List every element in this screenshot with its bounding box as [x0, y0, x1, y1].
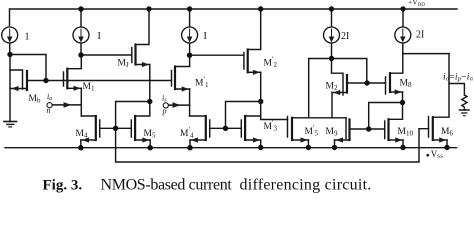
current source 2I5: [402, 9, 404, 27]
svg-text:io=ip−in: io=ip−in: [443, 73, 473, 83]
wire gate line A (Mb drain to M'1 gate): [27, 80, 172, 82]
terminal in: [47, 103, 52, 108]
transistor M'1: [171, 71, 173, 87]
svg-text:Mb: Mb: [29, 94, 41, 105]
transistor M8: [385, 77, 387, 94]
svg-text:M9: M9: [326, 127, 338, 138]
wire -VSS bottom rail: [5, 147, 457, 149]
svg-text:M5: M5: [144, 129, 156, 140]
transistor Mb: [10, 70, 23, 89]
svg-text:n: n: [47, 106, 51, 115]
svg-text:I: I: [98, 31, 101, 42]
transistor M'5: [287, 117, 289, 138]
svg-text:M6: M6: [441, 127, 453, 138]
svg-text:ia: ia: [47, 92, 52, 102]
wire MJ source vertical: [149, 65, 151, 102]
wire M2 source down: [331, 93, 333, 118]
transistor M3: [205, 116, 207, 140]
wire node C down to M'5 gate: [261, 102, 288, 120]
wire pair2 gates: [210, 127, 242, 129]
node B wire (MJ source node to pair1 gates): [116, 102, 150, 129]
transistor M5: [130, 120, 132, 137]
wire pair2 gates to node C: [226, 102, 261, 129]
svg-text:M8: M8: [400, 79, 412, 90]
svg-text:VSS: VSS: [431, 149, 443, 160]
svg-text:I: I: [204, 31, 207, 42]
svg-text:M2: M2: [326, 82, 338, 93]
wire 2I to M2 drain: [332, 59, 367, 84]
wire M2 drain to M8 gate: [367, 82, 386, 84]
resistor RL: [449, 84, 464, 96]
transistor M10: [384, 121, 386, 139]
svg-text:M′3: M′3: [264, 119, 278, 133]
svg-text:M′1: M′1: [195, 76, 209, 90]
svg-text:p: p: [162, 107, 167, 116]
svg-text:+VDD: +VDD: [408, 0, 425, 8]
wire M1 source / in vertical: [80, 88, 82, 116]
transistor M'2: [243, 53, 245, 70]
svg-text:MJ: MJ: [118, 59, 129, 70]
current source I3: [189, 9, 191, 27]
transistor M9: [345, 118, 347, 139]
wire node nb to Mb drain: [10, 55, 46, 81]
svg-text:M′2: M′2: [264, 56, 278, 70]
wire pair1 gates: [100, 127, 132, 129]
wire +VDD top rail: [10, 9, 458, 26]
svg-text:M4: M4: [76, 129, 88, 140]
caption: [43, 176, 372, 193]
wire I1 to node: [9, 44, 11, 55]
wire M'2 gate to node n3: [190, 54, 244, 56]
terminal ip: [163, 103, 168, 108]
svg-text:NMOS-based current: NMOS-based current: [101, 176, 233, 193]
current source I2: [80, 9, 82, 27]
svg-text:Fig. 3.: Fig. 3.: [43, 177, 83, 193]
label -VSS: [426, 149, 443, 160]
wire Mb diode/ground vertical: [9, 55, 11, 122]
wire M'2 source vertical: [260, 72, 262, 101]
wire M'1 source / ip vertical: [189, 89, 191, 116]
wire bottom bias wire to M6 gate: [116, 128, 429, 162]
current source 2I4: [331, 9, 333, 27]
wire 2I left branch: [309, 59, 332, 118]
ground: [4, 121, 17, 123]
transistor M4: [95, 116, 97, 140]
transistor M2: [332, 59, 344, 96]
svg-text:2I: 2I: [341, 31, 349, 42]
transistor M'3: [240, 120, 242, 137]
svg-text:is: is: [162, 94, 167, 104]
svg-text:M1: M1: [83, 82, 95, 93]
wire M8-source node to M9 drain dot: [369, 103, 403, 130]
svg-text:1: 1: [25, 32, 30, 43]
current source I1: [2, 27, 18, 43]
svg-text:differencing circuit.: differencing circuit.: [240, 176, 372, 193]
transistor MJ: [131, 48, 133, 63]
wire output tap: [403, 53, 449, 55]
transistor M1: [63, 72, 65, 86]
svg-text:M10: M10: [398, 127, 414, 138]
wire MJ gate to node n2: [81, 54, 132, 56]
ground output: [460, 109, 470, 111]
transistor M6: [428, 117, 430, 138]
svg-text:M′5: M′5: [305, 124, 319, 138]
svg-text:2I: 2I: [416, 30, 424, 41]
svg-text:M′4: M′4: [180, 126, 194, 140]
wire M8 source down to node: [402, 92, 404, 103]
